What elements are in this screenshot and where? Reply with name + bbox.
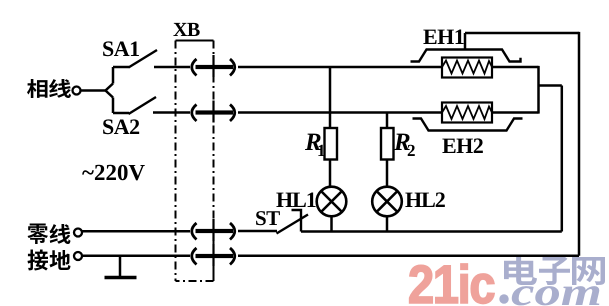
heater element EH1 <box>442 58 492 78</box>
wire right drop to neutral bus <box>561 86 564 232</box>
wire sheath earth riser <box>465 33 579 50</box>
wire HL1 bottom lead <box>330 216 333 231</box>
wire outer earth right drop <box>578 32 581 256</box>
switch SA1 <box>113 50 190 68</box>
label HL1 <box>276 192 315 207</box>
terminal 相线 <box>73 87 81 95</box>
label ~220V <box>82 165 145 181</box>
connector XB contact 1 <box>192 55 235 77</box>
connector XB boundary box <box>176 41 214 282</box>
wire EH1 right lead <box>492 66 539 69</box>
connector XB contact 3 <box>192 219 235 241</box>
heater EH2 sheath bracket <box>413 119 523 131</box>
label R1 <box>305 134 325 156</box>
lamp HL2 <box>372 187 402 217</box>
label 零线 (neutral) <box>28 224 71 244</box>
wire HL2 bottom lead <box>386 216 389 231</box>
label R2 <box>394 134 415 156</box>
wire phase lead <box>81 89 106 92</box>
wire SA1 bus to EH1 <box>238 66 442 69</box>
thermostat switch ST <box>277 210 309 234</box>
wire SA2 bus to EH2 <box>238 111 442 114</box>
heater EH1 sheath bracket <box>411 50 521 62</box>
terminal 接地 <box>74 252 82 260</box>
label SA1 <box>103 41 139 56</box>
resistor R2 <box>381 113 394 188</box>
connector XB contact 4 <box>192 244 235 266</box>
label HL2 <box>405 192 444 207</box>
wire earth bottom bus <box>83 255 580 258</box>
wire neutral from XB to ST <box>238 230 277 233</box>
resistor R1 <box>325 67 338 187</box>
wire neutral bottom bus <box>301 230 562 233</box>
label EH2 <box>442 138 482 153</box>
terminal 零线 <box>74 229 82 237</box>
label 相线 (phase line) <box>27 79 71 98</box>
heater element EH2 <box>442 103 492 123</box>
watermark logo 21ic.com 电子网 <box>410 257 605 306</box>
label ST <box>256 211 280 225</box>
ground symbol <box>105 256 137 278</box>
label EH1 <box>423 29 463 44</box>
wire branch to SA1/SA2 <box>106 67 114 113</box>
switch SA2 <box>113 97 190 114</box>
wire neutral lead <box>83 230 191 233</box>
label XB <box>173 23 199 36</box>
wire junction to right drop <box>539 84 562 87</box>
lamp HL1 <box>317 187 347 217</box>
wire EH junction vertical <box>537 66 540 114</box>
wire EH2 right lead <box>492 111 539 114</box>
label SA2 <box>103 119 139 134</box>
label 接地 (earth) <box>27 250 70 271</box>
connector XB contact 2 <box>192 101 235 123</box>
